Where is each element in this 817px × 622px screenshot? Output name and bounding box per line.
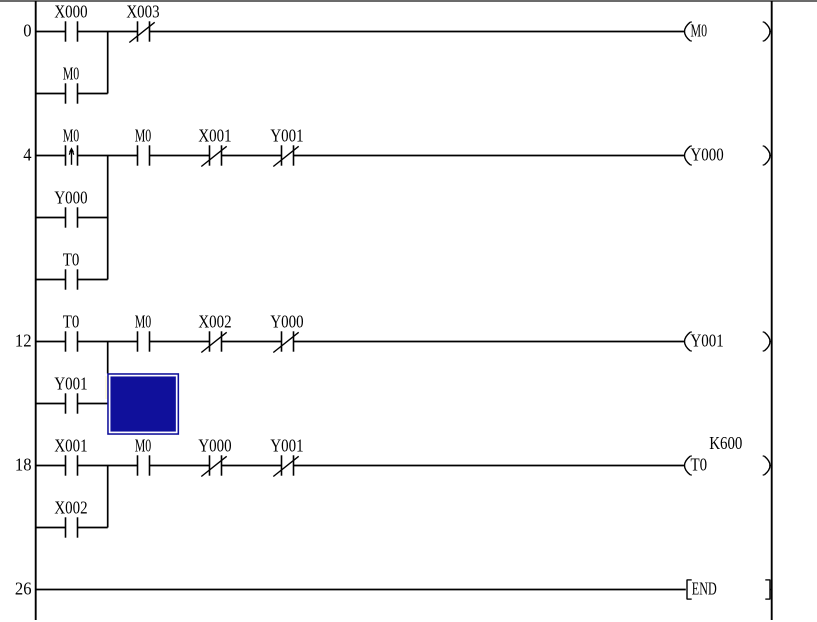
- contact Y000 (parallel, rung4): [54, 187, 87, 227]
- rung number 18: [15, 455, 32, 475]
- rung number 0: [23, 21, 31, 41]
- wire rung26 rail to END: [36, 589, 686, 591]
- NC contact Y000 (rung18): [198, 435, 231, 476]
- svg-text:M0: M0: [135, 435, 152, 455]
- svg-text:X002: X002: [54, 497, 87, 517]
- wire X001 to Y001: [222, 155, 282, 157]
- wire branch rail to M0: [36, 93, 66, 95]
- coil Y001: [685, 331, 772, 351]
- wire branch rail to Y001 contact: [36, 403, 66, 405]
- svg-text:X000: X000: [54, 1, 87, 21]
- svg-text:18: 18: [15, 455, 32, 475]
- wire T0 to M0: [78, 341, 138, 343]
- wire M0 to X001: [150, 155, 210, 157]
- wire X002 to Y000: [222, 341, 282, 343]
- wire X003 to coil M0: [150, 31, 685, 33]
- wire X001 to M0: [78, 465, 138, 467]
- wire rung12 rail to T0: [36, 341, 66, 343]
- contact X002 (parallel, rung18): [54, 497, 87, 537]
- wire branch rail to X002 contact: [36, 527, 66, 529]
- wire branch rail to Y000 contact: [36, 217, 66, 219]
- contact T0 (parallel, rung4): [63, 249, 80, 289]
- junction vertical rung4 branches: [107, 156, 109, 280]
- svg-text:X003: X003: [126, 1, 159, 21]
- wire M0 to Y000: [150, 465, 210, 467]
- contact M0 (rung12): [135, 311, 152, 351]
- svg-text:T0: T0: [63, 311, 80, 331]
- coil Y000: [685, 145, 772, 165]
- wire X000 to X003: [78, 31, 138, 33]
- svg-text:Y001: Y001: [270, 435, 303, 455]
- wire Y001 branch to cursor cell: [78, 403, 108, 405]
- wire M0 branch to junction: [78, 93, 108, 95]
- rung number 12: [15, 331, 32, 351]
- svg-text:26: 26: [15, 579, 32, 599]
- wire Y001 to coil Y000: [294, 155, 685, 157]
- wire M0 to X002: [150, 341, 210, 343]
- svg-text:Y001: Y001: [270, 125, 303, 145]
- svg-text:T0: T0: [691, 455, 708, 475]
- rung number 4: [23, 145, 31, 165]
- NC contact X003: [126, 1, 159, 42]
- top border line: [0, 0, 817, 2]
- junction vertical rung12 branch: [107, 342, 109, 374]
- contact M0 (rung18): [135, 435, 152, 475]
- svg-text:M0: M0: [135, 125, 152, 145]
- coil M0: [685, 21, 772, 41]
- junction vertical rung0 branch: [107, 32, 109, 94]
- svg-text:Y000: Y000: [691, 145, 724, 165]
- contact T0 (rung12): [63, 311, 80, 351]
- wire branch rail to T0 contact: [36, 279, 66, 281]
- contact X000: [54, 1, 87, 41]
- wire Y000 to Y001: [222, 465, 282, 467]
- NC contact Y001 (rung4): [270, 125, 303, 166]
- pulse contact M0 (rising edge): [63, 125, 80, 165]
- svg-text:X002: X002: [198, 311, 231, 331]
- timer coil T0: [685, 455, 772, 475]
- wire X002 branch to junction: [78, 527, 108, 529]
- svg-text:0: 0: [23, 21, 31, 41]
- svg-text:END: END: [692, 579, 717, 599]
- contact X001 (rung18): [54, 435, 87, 475]
- svg-text:M0: M0: [691, 21, 708, 41]
- wire Y000 to coil Y001: [294, 341, 685, 343]
- rung number 26: [15, 579, 32, 599]
- pale highlight strip left of cursor: [105, 376, 108, 399]
- wire rung0 rail to X000: [36, 31, 66, 33]
- svg-text:4: 4: [23, 145, 31, 165]
- junction vertical rung18 branch: [107, 466, 109, 528]
- NC contact X002: [198, 311, 231, 352]
- wire T0 branch to junction: [78, 279, 108, 281]
- svg-text:Y000: Y000: [270, 311, 303, 331]
- edit cursor (blue selection box): [107, 373, 179, 435]
- contact M0 (parallel, rung0): [63, 63, 80, 103]
- svg-text:K600: K600: [709, 433, 742, 453]
- svg-text:12: 12: [15, 331, 32, 351]
- svg-text:X001: X001: [54, 435, 87, 455]
- right power rail: [771, 1, 773, 620]
- contact M0 (rung4 cell1): [135, 125, 152, 165]
- NC contact Y000 (rung12): [270, 311, 303, 352]
- END instruction: [687, 579, 772, 600]
- contact Y001 (parallel, rung12): [54, 373, 87, 413]
- svg-text:T0: T0: [63, 249, 80, 269]
- svg-text:M0: M0: [63, 63, 80, 83]
- wire rung4 rail to M0 pulse: [36, 155, 66, 157]
- NC contact X001: [198, 125, 231, 166]
- svg-text:Y001: Y001: [54, 373, 87, 393]
- svg-text:Y001: Y001: [691, 331, 724, 351]
- svg-text:Y000: Y000: [198, 435, 231, 455]
- left power rail: [35, 1, 37, 620]
- svg-text:M0: M0: [63, 125, 80, 145]
- NC contact Y001 (rung18): [270, 435, 303, 476]
- wire Y001 to timer coil T0: [294, 465, 685, 467]
- svg-text:M0: M0: [135, 311, 152, 331]
- wire Y000 branch to junction: [78, 217, 108, 219]
- wire pulse M0 to M0: [78, 155, 138, 157]
- svg-text:X001: X001: [198, 125, 231, 145]
- svg-text:Y000: Y000: [54, 187, 87, 207]
- value K600: [709, 433, 742, 453]
- wire rung18 rail to X001: [36, 465, 66, 467]
